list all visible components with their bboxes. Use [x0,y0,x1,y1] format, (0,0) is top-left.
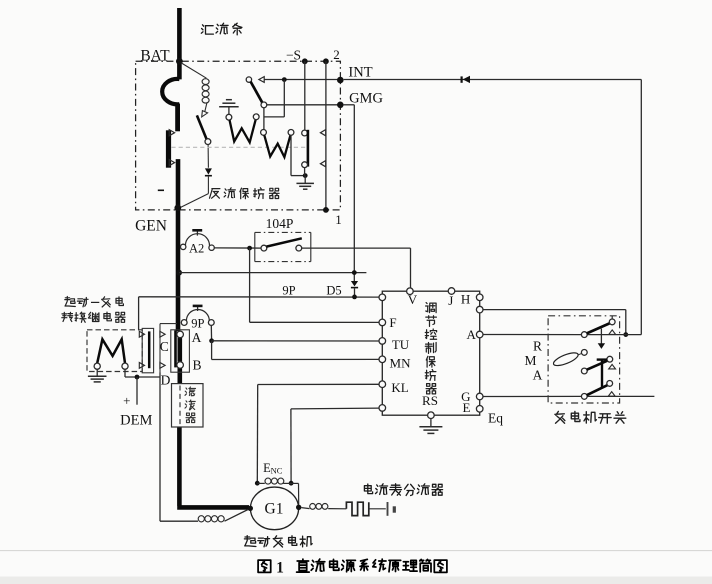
svg-text:INT: INT [348,65,372,81]
svg-text:Eq: Eq [488,411,503,426]
svg-text:104P: 104P [266,216,294,231]
svg-text:A: A [192,330,202,345]
svg-text:J: J [448,293,453,308]
svg-text:1: 1 [276,560,284,577]
svg-text:M: M [524,353,536,368]
svg-text:MN: MN [390,355,412,370]
svg-text:KL: KL [391,380,408,395]
svg-text:R: R [533,339,542,354]
svg-text:9P: 9P [282,284,295,298]
svg-text:NC: NC [271,466,283,476]
svg-text:C: C [160,339,169,354]
svg-text:2: 2 [333,47,340,62]
svg-text:−S: −S [286,48,301,63]
svg-text:9P: 9P [191,316,204,330]
svg-text:GMG: GMG [349,91,383,107]
svg-text:A: A [467,327,477,342]
svg-text:E: E [463,400,471,415]
svg-text:GEN: GEN [135,218,167,235]
svg-text:1: 1 [335,212,342,227]
svg-text:V: V [408,292,418,307]
svg-text:D5: D5 [326,284,341,298]
svg-text:B: B [192,358,201,373]
svg-text:DEM: DEM [120,413,152,429]
svg-text:G1: G1 [265,501,284,518]
svg-text:+: + [123,393,130,408]
svg-text:TU: TU [392,337,410,352]
svg-text:BAT: BAT [140,48,170,65]
svg-text:H: H [461,292,470,307]
svg-text:RS: RS [422,393,438,408]
svg-text:D: D [161,372,171,387]
svg-text:A: A [533,368,543,383]
svg-text:A2: A2 [189,242,204,256]
svg-text:F: F [389,315,396,330]
